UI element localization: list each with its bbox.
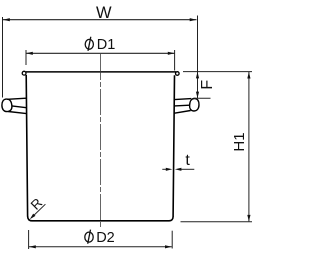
dimension D1 line: [26, 52, 175, 54]
left handle bottom line: [8, 112, 26, 114]
dimension H1 line: [248, 72, 250, 221]
pot rim line: [26, 71, 176, 73]
dimension D2 extension line left: [28, 230, 30, 249]
label phi of D2: [85, 230, 93, 244]
right handle cap: [190, 98, 199, 111]
dimension H1 down arrow: [247, 215, 250, 222]
dimension F bottom extension line: [194, 97, 211, 99]
dimension W extension line left: [2, 17, 4, 98]
dimension D2 extension line right: [171, 231, 173, 249]
right handle middle line: [174, 104, 189, 107]
svg-text:F: F: [199, 80, 216, 90]
dimension W right arrow: [190, 18, 197, 21]
pot rim left bead circle: [22, 71, 26, 75]
label phi of D1: [85, 37, 93, 51]
svg-text:D1: D1: [97, 37, 116, 53]
center line (axis of symmetry): [99, 54, 101, 227]
svg-text:H1: H1: [231, 132, 248, 151]
dimension D1 extension line right: [174, 50, 176, 71]
svg-text:W: W: [96, 4, 112, 22]
dimension W / F shared extension line right: [197, 16, 199, 99]
dimension F down arrow: [196, 92, 199, 99]
R leader line: [32, 204, 46, 217]
pot body outline (walls and bottom): [26, 75, 174, 221]
dimension H1 bottom extension line: [181, 221, 253, 223]
dimension F top extension line (rim, shared with H1): [183, 71, 252, 73]
dimension D2 right arrow: [165, 245, 172, 248]
dimension D2 line: [29, 246, 172, 248]
dimension t left arrow: [166, 168, 173, 171]
dimension W left arrow: [3, 18, 10, 21]
dimension D1 extension line left: [25, 50, 27, 65]
left handle middle line: [12, 106, 27, 108]
dimension F up arrow: [196, 72, 199, 79]
dimension D1 left arrow: [26, 52, 33, 55]
svg-text:t: t: [185, 152, 190, 169]
dimension D1 right arrow: [168, 52, 175, 55]
left handle top line: [7, 98, 26, 99]
R leader arrow: [30, 214, 36, 220]
dimension H1 up arrow: [247, 72, 250, 79]
dimension D2 left arrow: [29, 245, 36, 248]
right handle bottom line: [174, 111, 190, 114]
svg-text:D2: D2: [96, 230, 115, 246]
right handle top line: [174, 99, 191, 100]
dimension t right segment: [181, 168, 194, 170]
left handle cap: [2, 99, 12, 112]
dimension W line: [3, 19, 197, 21]
dimension t left segment: [162, 168, 166, 170]
dimension t right arrow: [175, 168, 182, 171]
pot rim right bead circle: [176, 72, 180, 76]
